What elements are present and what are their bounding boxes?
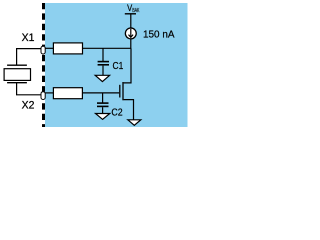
chip shaded region	[45, 3, 188, 127]
wire source to ground	[124, 100, 134, 120]
wire crystal top to pin X1	[17, 49, 41, 65]
capacitor C2 stub	[102, 93, 104, 103]
resistor R2	[53, 88, 82, 99]
svg-text:C2: C2	[111, 106, 122, 118]
wire VBAK to current source	[130, 14, 132, 29]
power rail VBAK	[125, 13, 136, 15]
ground below transistor source	[128, 120, 141, 126]
transistor M1 gate bar	[119, 85, 121, 98]
current source I1 150 nA	[125, 28, 136, 39]
wire current source to drain node	[130, 38, 132, 48]
wire drain vertical	[124, 48, 131, 83]
svg-text:BAK: BAK	[132, 8, 139, 14]
ground below C1	[95, 75, 109, 81]
capacitor C1 stub	[102, 48, 104, 61]
wire pin X2 to resistor R2	[45, 92, 53, 94]
svg-text:X1: X1	[22, 32, 35, 44]
capacitor C2	[97, 103, 109, 113]
svg-text:C1: C1	[113, 60, 124, 72]
pin X1	[41, 46, 45, 54]
svg-text:X2: X2	[22, 100, 35, 112]
wire crystal bottom to pin X2	[17, 83, 41, 95]
capacitor C1	[98, 62, 109, 76]
ground below C2	[96, 114, 110, 120]
chip boundary dashed line	[42, 3, 45, 46]
wire pin X1 to resistor R1	[45, 47, 53, 49]
svg-text:150 nA: 150 nA	[143, 28, 175, 40]
wire R2 to gate	[82, 92, 119, 94]
resistor R1	[53, 43, 82, 54]
transistor M1 channel bar	[122, 82, 124, 100]
pin X2	[41, 92, 45, 100]
crystal Y1	[4, 65, 30, 83]
wire R1 to current-source node	[83, 47, 132, 49]
